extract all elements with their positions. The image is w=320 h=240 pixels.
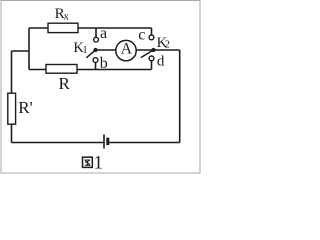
wire bottom branch <box>29 69 152 71</box>
wire top branch <box>29 27 152 29</box>
wire a drop <box>95 28 97 37</box>
svg-text:b: b <box>100 55 108 72</box>
wire left vertical lower <box>11 124 13 143</box>
border frame <box>1 1 200 174</box>
switch K1 lever <box>86 50 95 58</box>
switch K1 pivot dot <box>93 48 97 52</box>
svg-text:1: 1 <box>82 45 87 56</box>
wire K1 to ammeter <box>96 49 116 51</box>
svg-text:c: c <box>138 26 145 43</box>
wire c drop <box>151 28 153 35</box>
wire bottom right <box>109 142 180 144</box>
battery short thick plate <box>106 138 109 145</box>
battery long plate <box>103 134 105 148</box>
ammeter A <box>116 40 136 60</box>
wire stub to left <box>12 50 30 52</box>
switch K1 terminal b <box>93 58 98 63</box>
switch K2 terminal c <box>149 35 154 40</box>
wire inner left vertical <box>28 28 30 70</box>
resistor R_x <box>48 23 78 32</box>
wire b drop <box>95 62 97 69</box>
switch K1 terminal a <box>94 37 99 42</box>
svg-text:x: x <box>64 10 70 22</box>
wire bottom left <box>12 142 104 144</box>
resistor R' <box>8 93 16 124</box>
svg-text:2: 2 <box>165 40 170 51</box>
wire d rise <box>151 61 153 70</box>
svg-text:d: d <box>157 54 165 70</box>
wire K2 to right vertical <box>154 49 180 51</box>
switch K2 lever <box>141 50 154 58</box>
wire left vertical upper <box>11 51 13 94</box>
wire ammeter to K2 <box>136 49 153 51</box>
svg-text:A: A <box>121 40 133 57</box>
resistor R <box>46 65 77 74</box>
svg-text:1: 1 <box>94 153 104 174</box>
wire right vertical <box>179 50 181 143</box>
switch K2 terminal d <box>149 56 154 61</box>
switch K2 pivot dot <box>151 48 155 52</box>
svg-text:R': R' <box>18 98 32 117</box>
svg-text:R: R <box>59 74 71 93</box>
svg-text:a: a <box>100 25 107 42</box>
caption figure glyph 图 <box>83 157 93 167</box>
